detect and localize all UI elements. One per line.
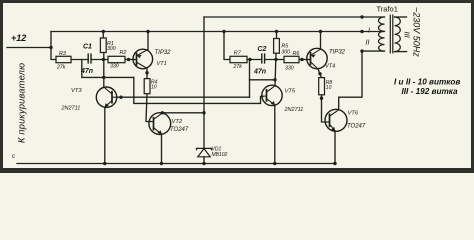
transistor VT5 2N2711 <box>262 85 282 105</box>
wire VT3 collector cross-coupling line2 to VT5 base <box>134 77 263 103</box>
transformer core <box>390 15 393 54</box>
svg-text:VT5: VT5 <box>285 89 296 95</box>
wire line1 riser to R7-C2 node <box>249 59 251 97</box>
wire secondary bottom stub <box>395 51 407 53</box>
wire stub to VT5 collector <box>250 79 276 81</box>
svg-text:VT2: VT2 <box>172 119 183 125</box>
wire C1 to node A to R2 <box>91 59 108 61</box>
wire VT3 emitter to ground bus <box>104 107 106 163</box>
wire R8 bottom to VT6 base <box>322 95 330 122</box>
svg-text:C1: C1 <box>83 44 92 51</box>
svg-text:I и II - 10 витков: I и II - 10 витков <box>394 78 460 87</box>
wire VT3 base cross-coupling line1 <box>117 96 250 98</box>
svg-text:27k: 27k <box>233 64 243 70</box>
svg-text:47n: 47n <box>253 69 266 76</box>
wire VT2 emitter to ground bus <box>161 134 163 163</box>
resistor R3 <box>56 56 71 62</box>
transistor VT1 TIP32 <box>133 49 153 69</box>
svg-text:R3: R3 <box>59 51 66 57</box>
wire R7 to C2 <box>247 59 262 61</box>
wire R2 to VT1 base <box>125 59 137 61</box>
svg-text:300: 300 <box>107 46 116 52</box>
svg-text:II: II <box>366 40 370 47</box>
wire R6 to VT4 base <box>299 59 311 61</box>
svg-text:R7: R7 <box>234 50 242 56</box>
svg-text:I: I <box>368 28 370 35</box>
svg-text:TIP32: TIP32 <box>329 50 346 56</box>
svg-text:TO247: TO247 <box>170 127 189 133</box>
svg-text:C2: C2 <box>258 46 267 53</box>
svg-text:Trafo1: Trafo1 <box>377 5 398 14</box>
wire R5 bottom to node B to VT5 collector <box>275 53 276 86</box>
wire VT4 emitter from rail <box>320 32 322 50</box>
svg-text:330: 330 <box>285 66 294 72</box>
svg-text:2N2711: 2N2711 <box>284 107 304 113</box>
wire ground bus <box>17 163 336 165</box>
transistor VT6 TO247 <box>325 109 347 131</box>
frame border <box>0 0 474 173</box>
svg-text:К прикуривателю: К прикуривателю <box>17 63 27 143</box>
wire VT2 collector east <box>161 112 163 114</box>
wire R5 top lead <box>276 32 278 39</box>
svg-text:VT4: VT4 <box>325 64 335 70</box>
wire VT4 collector to R8 <box>318 69 322 78</box>
wire R4 bottom to VT2 base <box>146 94 154 122</box>
wire winding II bottom stub <box>362 50 385 52</box>
svg-text:VT3: VT3 <box>71 88 82 94</box>
wire R1 top lead <box>102 32 104 39</box>
capacitor C1 <box>88 53 91 63</box>
transistor VT2 TO247 <box>149 113 171 135</box>
wire left riser to rail and down to R3 <box>51 32 56 60</box>
wire VT5 emitter to ground bus <box>274 105 276 164</box>
wire VT1 collector to R4 <box>146 68 148 78</box>
wire secondary top stub <box>395 16 407 18</box>
svg-text:MB102: MB102 <box>212 152 228 158</box>
wire VT6 emitter to ground bus <box>334 131 336 164</box>
svg-text:III: III <box>403 32 412 38</box>
svg-text:VT6: VT6 <box>348 111 359 117</box>
wire VT6 collector to winding II bottom <box>339 51 362 110</box>
resistor R4 <box>144 79 150 94</box>
svg-text:III - 192 витка: III - 192 витка <box>402 87 459 96</box>
resistor R6 <box>284 56 299 62</box>
svg-text:10: 10 <box>151 85 157 91</box>
wire VT1 emitter from rail <box>147 32 149 50</box>
capacitor C2 <box>262 53 265 63</box>
wire R1 bottom to node A to VT3 collector <box>103 53 105 88</box>
resistor R8 <box>319 78 325 95</box>
wire long vertical x204 winding-I-top to VD1 <box>203 17 205 148</box>
transformer secondary winding III <box>395 17 401 52</box>
svg-text:27k: 27k <box>56 65 66 71</box>
wire R3 to C1 <box>71 59 88 61</box>
transistor VT4 TIP32 <box>307 48 327 69</box>
wire y17 to transformer winding I top <box>204 16 385 18</box>
transformer Trafo1 primary windings I and II <box>379 17 385 51</box>
resistor R2 <box>108 56 125 62</box>
wire +12 top rail <box>51 31 385 33</box>
resistor R5 <box>274 39 280 54</box>
resistor R7 <box>230 56 247 62</box>
wire VD1 anode to ground bus <box>203 157 205 164</box>
svg-text:47n: 47n <box>80 68 93 75</box>
wire +12 input <box>7 47 51 49</box>
wire riser from R3-C1 wire down to cross rail <box>82 60 134 78</box>
svg-text:R6: R6 <box>293 51 300 57</box>
svg-text:TO247: TO247 <box>347 124 366 130</box>
svg-text:R2: R2 <box>120 50 127 56</box>
diode VD1 <box>197 148 212 156</box>
svg-text:330: 330 <box>110 64 119 70</box>
svg-text:+12: +12 <box>11 33 26 43</box>
svg-text:VT1: VT1 <box>157 61 167 67</box>
wire rail drop to R7 <box>224 32 230 60</box>
svg-text:300: 300 <box>281 50 290 56</box>
svg-text:10: 10 <box>326 85 332 91</box>
svg-text:~230V 50Hz: ~230V 50Hz <box>412 7 422 57</box>
resistor R1 <box>100 38 106 53</box>
svg-text:2N2711: 2N2711 <box>61 106 81 112</box>
svg-text:TIP32: TIP32 <box>155 50 172 56</box>
transistor VT3 2N2711 <box>96 87 117 108</box>
svg-text:c: c <box>12 154 15 160</box>
wire C2 to node B to R6 <box>265 59 284 61</box>
